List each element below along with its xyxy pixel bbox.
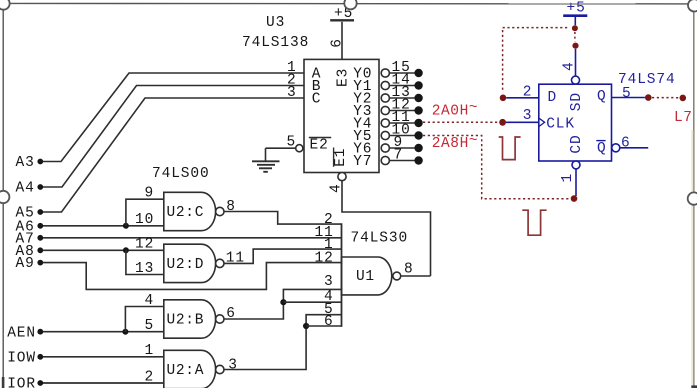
svg-text:6: 6	[330, 38, 346, 48]
svg-text:8: 8	[226, 199, 236, 215]
svg-text:10: 10	[135, 212, 154, 228]
svg-text:12: 12	[315, 250, 334, 266]
svg-text:+5: +5	[567, 1, 586, 17]
svg-text:74LS30: 74LS30	[351, 230, 409, 246]
svg-text:U2:C: U2:C	[167, 205, 205, 221]
svg-text:Y7: Y7	[353, 154, 372, 170]
svg-text:74LS00: 74LS00	[152, 166, 210, 182]
svg-text:CD: CD	[569, 134, 585, 153]
svg-text:AEN: AEN	[7, 325, 36, 341]
svg-text:4: 4	[145, 293, 155, 309]
svg-text:5: 5	[145, 318, 155, 334]
svg-text:A4: A4	[16, 181, 35, 197]
svg-text:3: 3	[523, 108, 533, 124]
svg-text:Q: Q	[597, 141, 607, 157]
svg-text:9: 9	[145, 186, 155, 202]
svg-text:13: 13	[135, 261, 154, 277]
svg-text:1: 1	[560, 173, 576, 183]
svg-text:5: 5	[622, 86, 632, 102]
svg-text:6: 6	[226, 306, 236, 322]
svg-text:4: 4	[562, 61, 578, 71]
svg-text:12: 12	[135, 237, 154, 253]
svg-text:1: 1	[145, 343, 155, 359]
svg-text:74LS74: 74LS74	[618, 72, 676, 88]
svg-text:E1: E1	[333, 148, 349, 167]
svg-text:6: 6	[324, 314, 334, 330]
svg-text:C: C	[312, 91, 322, 107]
svg-text:E3: E3	[336, 68, 352, 87]
svg-text:CLK: CLK	[546, 117, 575, 133]
svg-text:3: 3	[324, 274, 334, 290]
svg-text:L7: L7	[674, 110, 693, 126]
svg-text:2: 2	[523, 84, 533, 100]
svg-text:A3: A3	[16, 155, 35, 171]
svg-text:IOR: IOR	[7, 377, 36, 388]
svg-text:U2:A: U2:A	[167, 363, 205, 379]
svg-text:A9: A9	[16, 256, 35, 272]
svg-text:U2:D: U2:D	[167, 257, 205, 273]
svg-text:74LS138: 74LS138	[242, 35, 309, 51]
svg-text:8: 8	[404, 262, 414, 278]
svg-text:E2: E2	[310, 138, 329, 154]
svg-text:Q: Q	[597, 89, 607, 105]
svg-text:6: 6	[621, 136, 631, 152]
svg-text:SD: SD	[569, 92, 585, 111]
svg-text:2: 2	[145, 369, 155, 385]
svg-text:U1: U1	[356, 269, 375, 285]
svg-text:U2:B: U2:B	[167, 313, 205, 329]
svg-text:7: 7	[394, 148, 404, 164]
svg-text:3: 3	[228, 357, 238, 373]
svg-text:U3: U3	[266, 15, 285, 31]
svg-text:D: D	[548, 90, 558, 106]
svg-text:IOW: IOW	[7, 350, 36, 366]
